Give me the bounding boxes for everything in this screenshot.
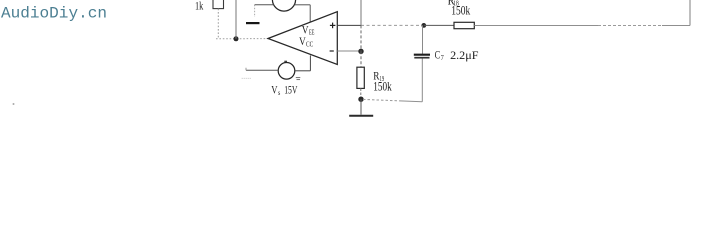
svg-text:150k: 150k xyxy=(451,2,470,17)
svg-text:150k: 150k xyxy=(373,79,392,94)
svg-text:2.2μF: 2.2μF xyxy=(450,48,479,62)
svg-text:V: V xyxy=(299,34,306,48)
svg-text:15V: 15V xyxy=(284,82,298,96)
svg-text:EE: EE xyxy=(309,29,314,37)
svg-text:V: V xyxy=(271,82,278,96)
svg-text:AudioDiy.cn: AudioDiy.cn xyxy=(1,4,107,22)
svg-text:7: 7 xyxy=(441,54,444,62)
svg-text:s: s xyxy=(278,89,281,97)
svg-text:CC: CC xyxy=(306,41,313,49)
svg-text:1k: 1k xyxy=(195,0,203,12)
svg-text:C: C xyxy=(435,48,441,62)
